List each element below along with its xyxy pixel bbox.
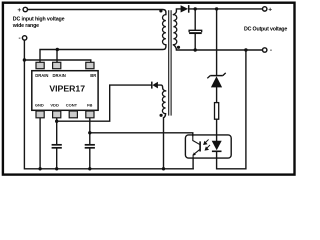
svg-text:+: +	[17, 7, 21, 14]
svg-text:+: +	[268, 6, 272, 13]
svg-text:DC Output voltage: DC Output voltage	[244, 26, 287, 32]
svg-text:BR: BR	[90, 73, 96, 78]
svg-text:DRAIN: DRAIN	[53, 73, 66, 78]
svg-text:wide range: wide range	[12, 23, 39, 29]
svg-text:GND: GND	[35, 103, 44, 108]
svg-text:DC input high voltage: DC input high voltage	[13, 16, 65, 22]
svg-text:CONT: CONT	[66, 103, 78, 108]
svg-text:FB: FB	[87, 103, 92, 108]
svg-text:-: -	[270, 47, 272, 54]
svg-text:-: -	[19, 35, 21, 42]
svg-text:VDD: VDD	[50, 103, 59, 108]
svg-text:DRAIN: DRAIN	[35, 73, 48, 78]
svg-text:VIPER17: VIPER17	[49, 84, 85, 94]
